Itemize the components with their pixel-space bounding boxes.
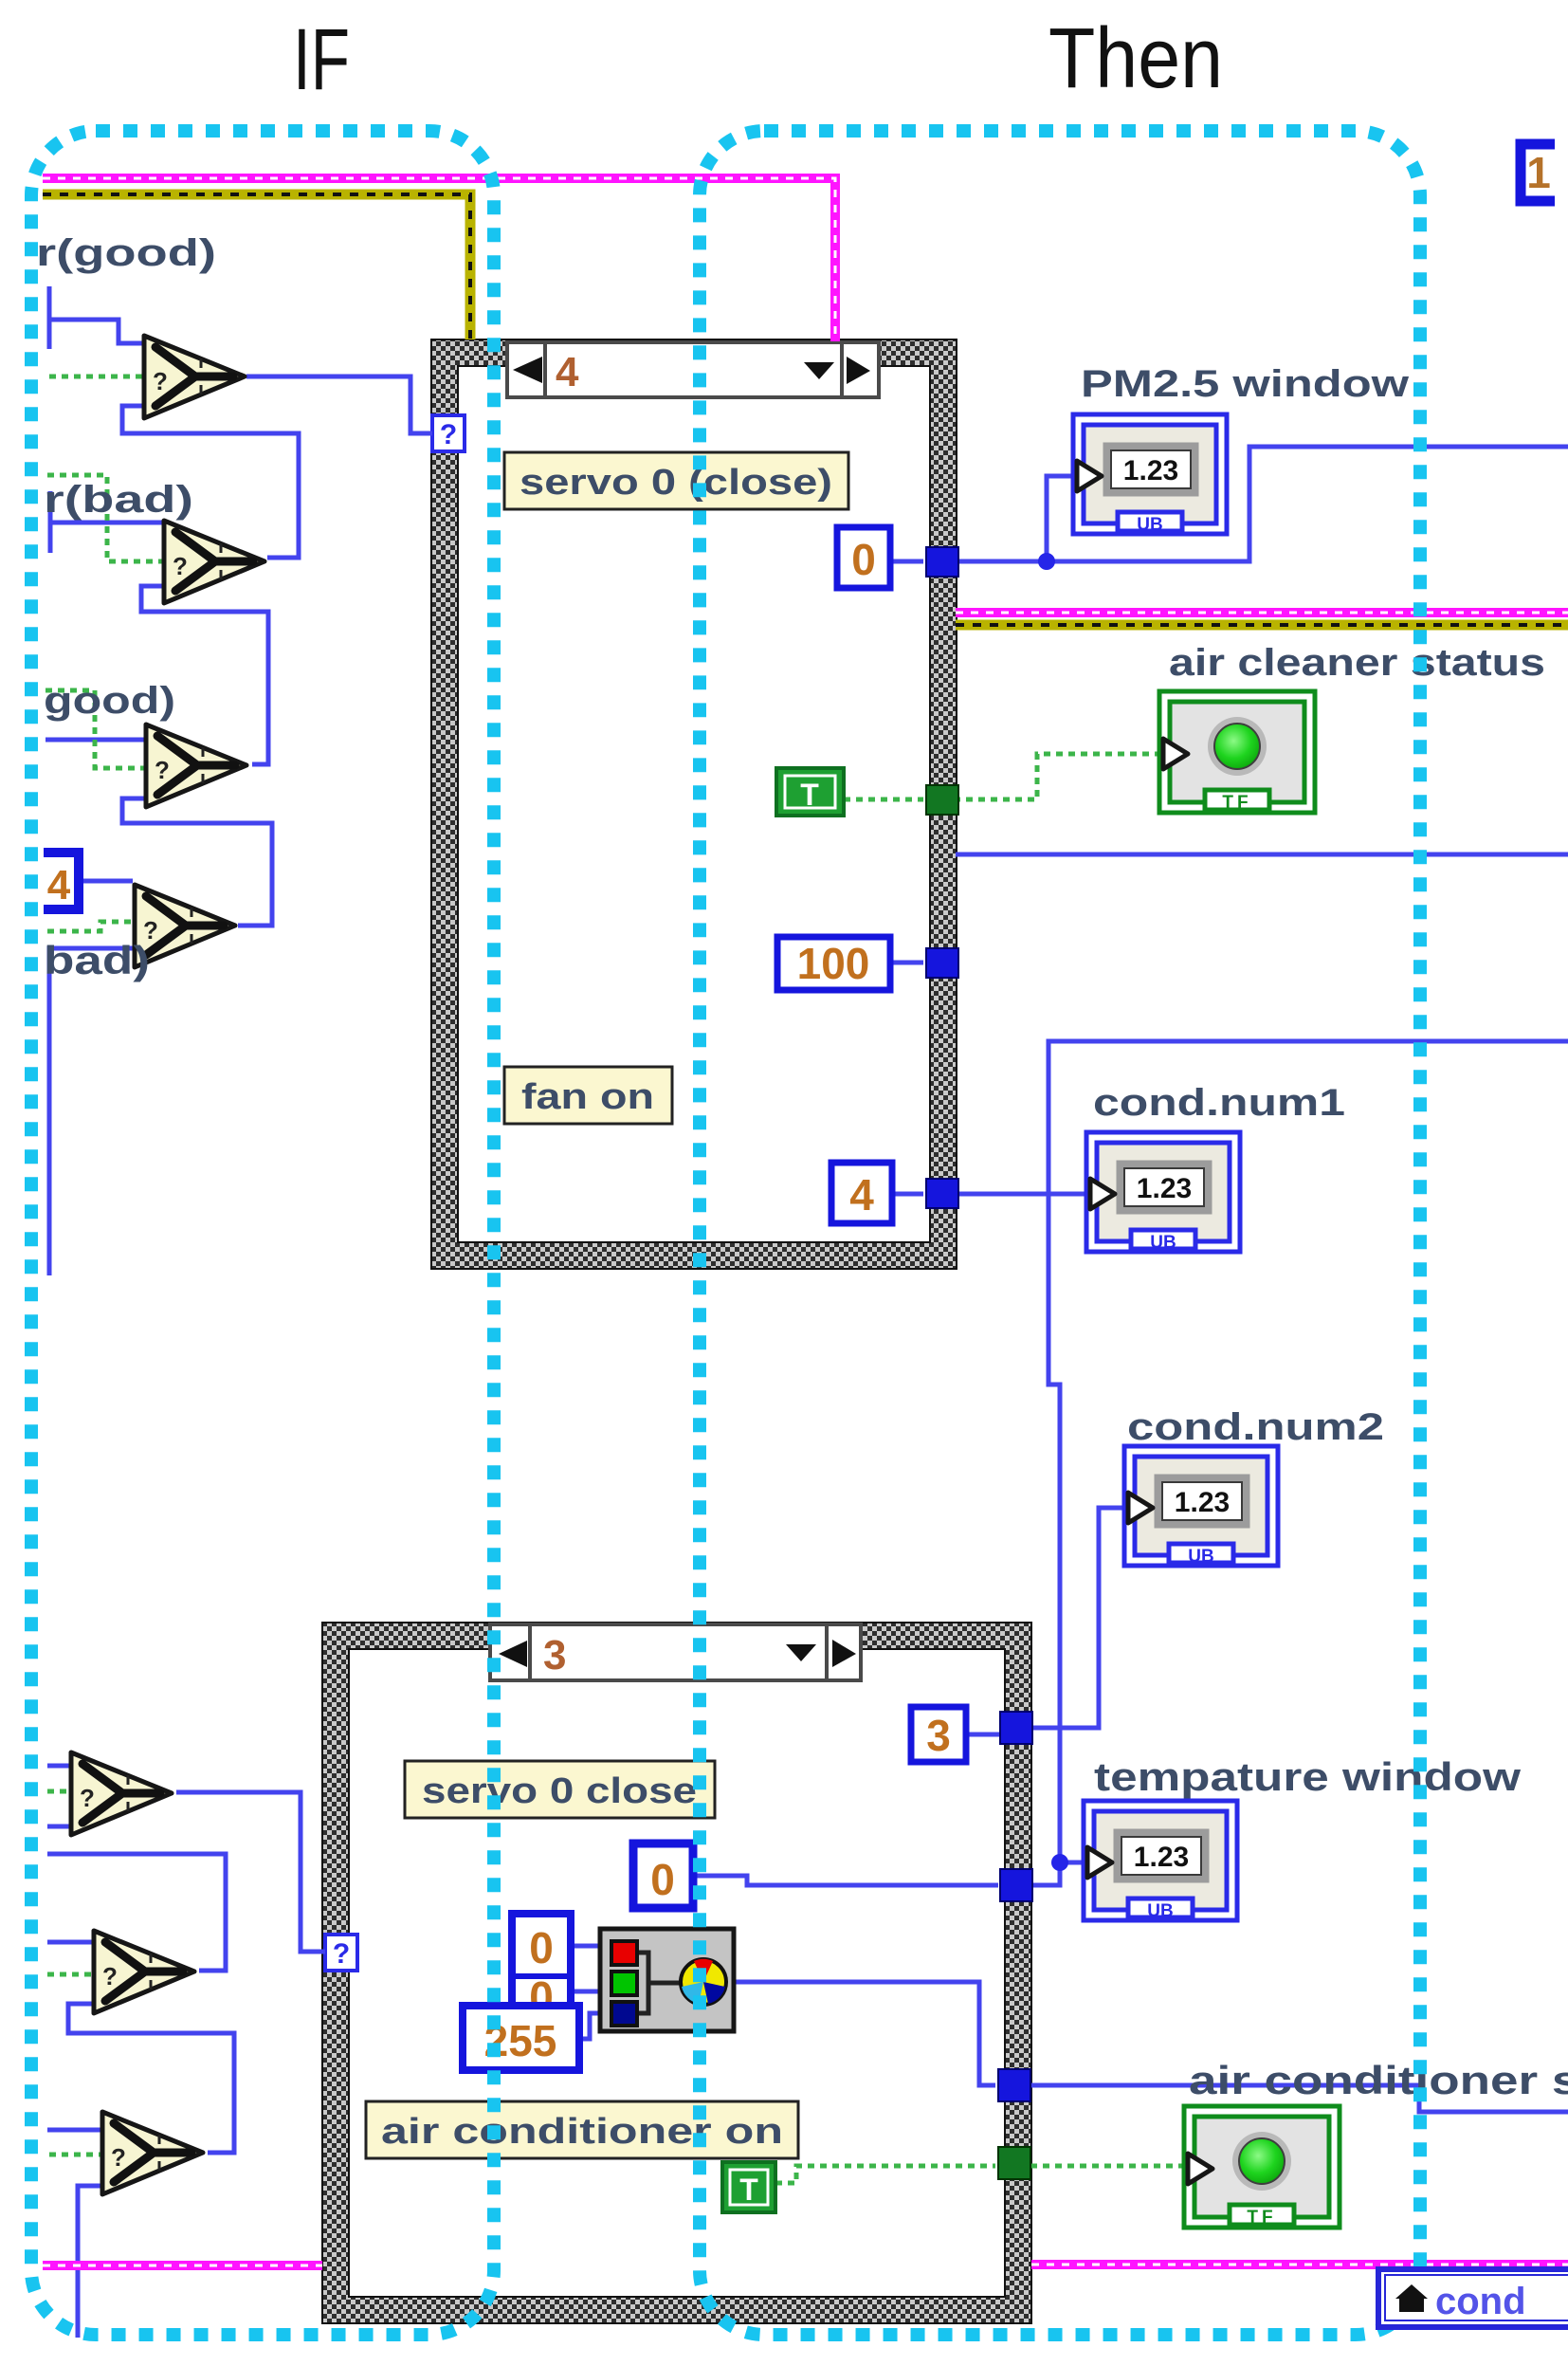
- svg-text:3: 3: [926, 1711, 951, 1760]
- svg-text:PM2.5 window: PM2.5 window: [1081, 363, 1410, 405]
- svg-text:cond.num1: cond.num1: [1093, 1082, 1345, 1124]
- svg-text:bad): bad): [44, 938, 150, 982]
- svg-text:4: 4: [556, 349, 579, 395]
- svg-text:100: 100: [797, 939, 870, 988]
- svg-text:T: T: [800, 778, 819, 812]
- svg-text:T: T: [739, 2173, 758, 2207]
- svg-text:r(good): r(good): [36, 232, 216, 274]
- svg-text:cond: cond: [1435, 2281, 1526, 2322]
- svg-text:0: 0: [650, 1855, 675, 1904]
- svg-text:4: 4: [849, 1170, 874, 1220]
- svg-text:1: 1: [1526, 148, 1551, 197]
- svg-text:IF: IF: [293, 11, 350, 108]
- svg-text:servo 0 close: servo 0 close: [422, 1771, 697, 1811]
- svg-text:tempature window: tempature window: [1094, 1754, 1521, 1799]
- svg-text:cond.num2: cond.num2: [1127, 1406, 1384, 1448]
- svg-text:fan on: fan on: [521, 1077, 654, 1117]
- svg-text:air cleaner status: air cleaner status: [1169, 642, 1545, 684]
- svg-text:3: 3: [543, 1632, 566, 1678]
- svg-text:servo 0 (close): servo 0 (close): [520, 463, 832, 503]
- svg-text:?: ?: [333, 1938, 350, 1970]
- svg-text:air conditioner st: air conditioner st: [1189, 2058, 1568, 2102]
- svg-text:air conditioner on: air conditioner on: [381, 2112, 783, 2152]
- svg-text:4: 4: [47, 862, 71, 908]
- svg-text:0: 0: [851, 535, 876, 584]
- svg-text:r(bad): r(bad): [44, 479, 193, 521]
- svg-text:Then: Then: [1048, 11, 1223, 106]
- svg-text:?: ?: [440, 419, 457, 450]
- svg-text:0: 0: [529, 1923, 554, 1972]
- svg-text:good): good): [44, 680, 175, 722]
